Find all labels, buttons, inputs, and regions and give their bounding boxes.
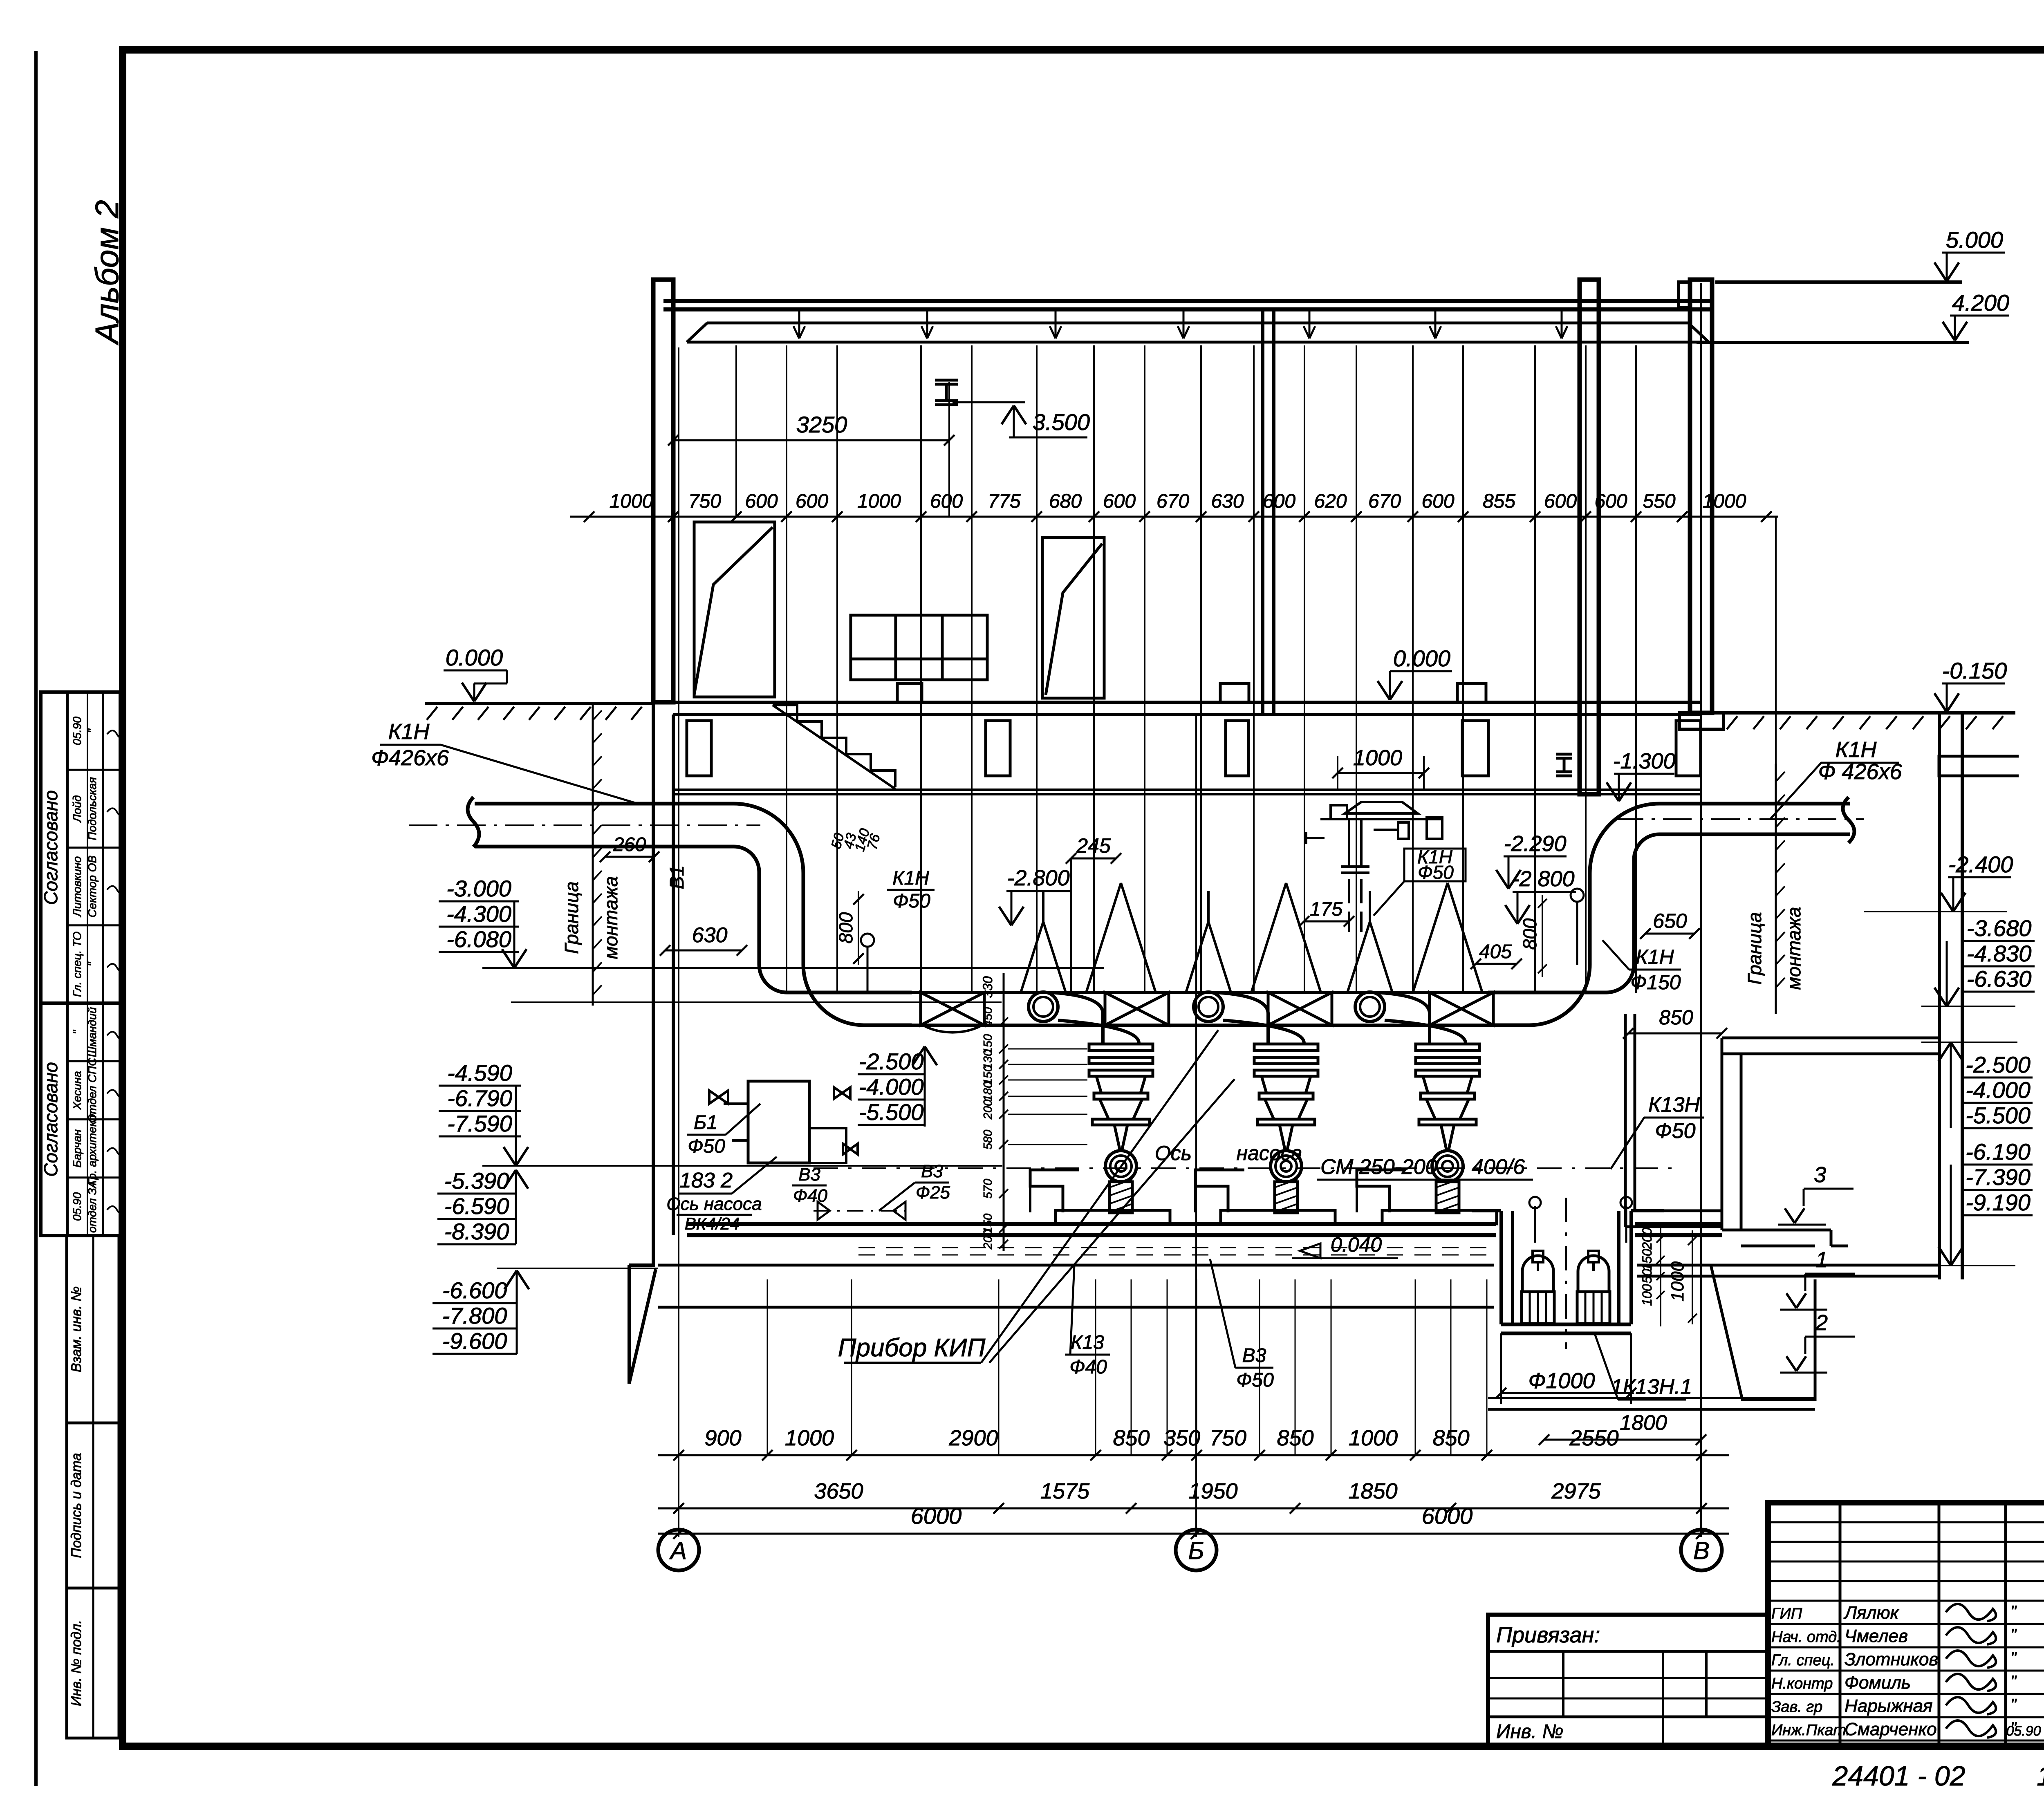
column axis Б <box>1176 1530 1217 1570</box>
witness line x=3462 <box>1415 1279 1416 1455</box>
pipe centreline right <box>1615 818 1864 820</box>
svg-text:Сектор ОВ: Сектор ОВ <box>86 856 99 918</box>
svg-text:К13Н: К13Н <box>1648 1093 1700 1117</box>
label К1Н ф50 boxed <box>1404 849 1466 881</box>
pipe К13Н riser <box>1625 1014 1722 1227</box>
svg-text:-6.080: -6.080 <box>446 926 511 952</box>
svg-text:405: 405 <box>1479 941 1512 963</box>
floor beam soffit band <box>673 790 1701 794</box>
svg-text:2900: 2900 <box>948 1426 998 1450</box>
outer trim line left <box>34 51 38 1786</box>
svg-text:600: 600 <box>1263 491 1295 512</box>
svg-text:620: 620 <box>1314 491 1347 512</box>
monorail I-beam (hall) <box>935 380 958 405</box>
svg-text:Ф 426х6: Ф 426х6 <box>1818 759 1902 784</box>
svg-text:": " <box>2010 1626 2017 1644</box>
svg-text:": " <box>86 728 99 733</box>
dimension 630 <box>665 950 742 952</box>
svg-text:Ф50: Ф50 <box>1655 1119 1695 1143</box>
witness line x=2927 <box>1196 1279 1197 1455</box>
pipe К1Н left elbow down <box>734 804 803 965</box>
svg-text:-6.630: -6.630 <box>1967 966 2032 992</box>
air valve riser right <box>1571 889 1584 902</box>
svg-text:Альбом 2: Альбом 2 <box>89 200 125 345</box>
svg-text:Ф25: Ф25 <box>916 1183 950 1203</box>
svg-text:0.000: 0.000 <box>1393 645 1450 671</box>
svg-text:Литовкино: Литовкино <box>71 856 83 918</box>
svg-text:1000: 1000 <box>610 491 653 512</box>
svg-text:1000: 1000 <box>1349 1426 1398 1450</box>
svg-text:600: 600 <box>1421 491 1454 512</box>
svg-text:0.040: 0.040 <box>1331 1233 1382 1256</box>
svg-text:-9.600: -9.600 <box>442 1328 507 1354</box>
svg-text:-5.500: -5.500 <box>1966 1102 2031 1128</box>
svg-text:6000: 6000 <box>1422 1503 1473 1529</box>
svg-text:670: 670 <box>1368 491 1401 512</box>
svg-text:05.90: 05.90 <box>2006 1723 2041 1739</box>
svg-text:Ф50: Ф50 <box>893 890 930 912</box>
margin cell 'Взам. инв. №' <box>67 1236 119 1423</box>
svg-text:К1Н: К1Н <box>388 719 430 744</box>
valves Б1 <box>709 1087 858 1154</box>
left pit wall <box>629 702 673 1384</box>
svg-text:-7.390: -7.390 <box>1966 1164 2031 1190</box>
registration block (Привязан) <box>1488 1615 1768 1746</box>
svg-text:400/6: 400/6 <box>1472 1155 1525 1179</box>
column axis А <box>658 1530 699 1570</box>
svg-text:": " <box>2010 1649 2017 1667</box>
svg-text:Нач. отд.: Нач. отд. <box>1771 1629 1841 1646</box>
svg-text:Ф50: Ф50 <box>1236 1369 1274 1391</box>
svg-text:1К13Н.1: 1К13Н.1 <box>1611 1375 1692 1399</box>
svg-text:1: 1 <box>1815 1248 1828 1272</box>
svg-text:183 2: 183 2 <box>679 1169 733 1192</box>
svg-text:Согласовано: Согласовано <box>40 1062 61 1177</box>
svg-text:Ф1000: Ф1000 <box>1528 1369 1595 1393</box>
svg-text:Ф50: Ф50 <box>688 1136 725 1157</box>
svg-text:Лялюк: Лялюк <box>1843 1603 1900 1623</box>
dimension row 2 <box>658 1508 1729 1510</box>
svg-text:К1Н: К1Н <box>1836 737 1877 762</box>
right pit step <box>1722 1230 1848 1246</box>
svg-text:3: 3 <box>1814 1163 1826 1187</box>
svg-text:насоса: насоса <box>1237 1142 1302 1165</box>
dimension 3250 <box>673 439 949 441</box>
svg-text:-7.590: -7.590 <box>447 1111 512 1136</box>
svg-text:монтажа: монтажа <box>1783 907 1804 990</box>
svg-text:180: 180 <box>982 1082 995 1101</box>
svg-text:-6.790: -6.790 <box>447 1085 512 1111</box>
ribbed roof panel band <box>687 323 1709 342</box>
svg-text:-2 800: -2 800 <box>1512 867 1574 891</box>
svg-text:200: 200 <box>1640 1228 1654 1250</box>
svg-text:200: 200 <box>982 1230 995 1250</box>
witness line x=2680 <box>1095 1279 1096 1455</box>
svg-text:600: 600 <box>796 491 828 512</box>
witness line x=3549 <box>1450 1279 1452 1455</box>
svg-text:Шмандий: Шмандий <box>86 1007 99 1057</box>
suction manifold <box>912 992 1488 1025</box>
installation boundary left (Граница монтажа) <box>592 702 594 1006</box>
svg-text:6000: 6000 <box>911 1503 962 1529</box>
monorail I-beam (basement) <box>1556 754 1572 776</box>
margin cell 'Инв. № подл.' <box>67 1588 119 1738</box>
dimension witness lines <box>735 345 737 517</box>
svg-text:Нарыжная: Нарыжная <box>1845 1696 1933 1716</box>
dimension 1000 (КИП) <box>1338 772 1424 774</box>
installation boundary right (Граница монтажа) <box>1775 764 1777 1014</box>
svg-text:": " <box>2010 1603 2017 1621</box>
svg-text:Взам. инв. №: Взам. инв. № <box>69 1286 84 1372</box>
drain channel dashed <box>858 1248 1488 1255</box>
slab pedestal 2 <box>1220 683 1249 702</box>
sump pit bottom <box>1501 1324 1631 1333</box>
svg-text:Граница: Граница <box>561 881 582 954</box>
svg-text:": " <box>2010 1696 2017 1714</box>
svg-text:750: 750 <box>1210 1426 1246 1450</box>
svg-text:Фомиль: Фомиль <box>1845 1673 1911 1693</box>
svg-text:Инж.Пкат.: Инж.Пкат. <box>1771 1722 1850 1739</box>
svg-text:1575: 1575 <box>1040 1479 1090 1503</box>
roof panel joint ticks <box>793 309 805 338</box>
svg-text:800: 800 <box>835 912 856 943</box>
svg-text:3.500: 3.500 <box>1033 409 1090 435</box>
svg-text:Злотников: Злотников <box>1845 1649 1938 1669</box>
step rect right ground <box>1939 756 2019 776</box>
roof beam (top slab) <box>663 301 1711 309</box>
svg-text:Зав. гр: Зав. гр <box>1771 1698 1822 1716</box>
svg-text:Гл. спец. ТО: Гл. спец. ТО <box>71 932 83 997</box>
svg-text:100: 100 <box>1640 1284 1654 1306</box>
svg-text:330: 330 <box>980 976 995 998</box>
svg-text:3250: 3250 <box>796 412 847 437</box>
svg-text:К1Н: К1Н <box>1636 945 1674 968</box>
svg-text:Н.контр: Н.контр <box>1771 1675 1833 1692</box>
svg-text:ГИП: ГИП <box>1771 1605 1802 1622</box>
svg-text:850: 850 <box>1659 1006 1693 1029</box>
svg-text:600: 600 <box>1103 491 1136 512</box>
svg-text:50: 50 <box>1640 1269 1654 1284</box>
manifold valve 2 <box>1105 992 1169 1025</box>
svg-text:-6.190: -6.190 <box>1966 1139 2031 1165</box>
witness line x=3168 <box>1295 1279 1296 1455</box>
svg-text:670: 670 <box>1156 491 1189 512</box>
svg-text:1000: 1000 <box>857 491 901 512</box>
roof line +4.200 over annex <box>1697 341 1969 344</box>
svg-text:К13: К13 <box>1071 1332 1104 1353</box>
manifold valve 3 <box>1268 992 1332 1025</box>
witness line x=2767 <box>1131 1279 1132 1455</box>
pump unit 2 (СМ 250-200-400/6) <box>1186 883 1335 1224</box>
svg-text:4.200: 4.200 <box>1952 290 2009 316</box>
svg-text:1800: 1800 <box>1620 1411 1667 1435</box>
pipe К1Н left inlet <box>468 797 734 847</box>
svg-text:-2.500: -2.500 <box>1966 1052 2031 1077</box>
svg-text:76: 76 <box>864 832 883 851</box>
svg-text:Ф50: Ф50 <box>1418 862 1454 883</box>
svg-text:ВК4/24: ВК4/24 <box>685 1214 740 1233</box>
svg-text:В1: В1 <box>666 865 688 889</box>
witness line x=3081 <box>1259 1279 1260 1455</box>
left footing line <box>497 1268 658 1269</box>
dimension ф1000 <box>1501 1392 1631 1394</box>
pump unit 1 (СМ 250-200-400/6) <box>1021 883 1170 1224</box>
svg-text:600: 600 <box>1544 491 1577 512</box>
svg-text:Гр. архитект: Гр. архитект <box>86 1111 99 1185</box>
witness line x=2083 <box>851 1279 852 1455</box>
svg-text:150: 150 <box>1640 1249 1654 1271</box>
svg-text:630: 630 <box>1211 491 1244 512</box>
svg-text:900: 900 <box>704 1426 741 1450</box>
top dimension chain <box>570 516 1778 518</box>
svg-text:": " <box>86 962 99 966</box>
svg-text:Ось: Ось <box>1155 1142 1192 1165</box>
svg-text:350: 350 <box>1163 1426 1200 1450</box>
svg-text:В3: В3 <box>1242 1345 1266 1366</box>
svg-text:-3.000: -3.000 <box>446 876 511 901</box>
pipe right lower elbow <box>1488 965 1634 1025</box>
svg-text:750: 750 <box>688 491 721 512</box>
ground floor slab (0.000) <box>673 702 1701 715</box>
svg-text:1000: 1000 <box>1703 491 1746 512</box>
svg-text:К1Н: К1Н <box>892 867 929 889</box>
ground line right with hatching <box>1725 711 2015 715</box>
svg-text:Инв. № подл.: Инв. № подл. <box>69 1620 84 1706</box>
column axis В <box>1681 1530 1722 1570</box>
svg-text:СМ 250-200-: СМ 250-200- <box>1320 1155 1444 1179</box>
svg-text:Ф426х6: Ф426х6 <box>371 746 449 770</box>
svg-text:Ф150: Ф150 <box>1630 971 1681 994</box>
svg-text:2: 2 <box>1815 1310 1828 1335</box>
svg-text:0.000: 0.000 <box>446 645 503 670</box>
manifold valve 1 <box>921 992 984 1025</box>
dimension 1800 <box>1544 1439 1701 1441</box>
right pit slope <box>1711 1265 1815 1400</box>
wall panel with open leaf 2 <box>1042 538 1104 698</box>
svg-text:245: 245 <box>1076 834 1111 857</box>
svg-text:Хесина: Хесина <box>71 1071 83 1110</box>
svg-text:Подпись и дата: Подпись и дата <box>69 1453 84 1558</box>
svg-text:800: 800 <box>1519 918 1540 950</box>
svg-text:Б1: Б1 <box>694 1112 717 1133</box>
svg-text:Подольская: Подольская <box>86 777 99 840</box>
witness line x=2855 <box>1167 1279 1168 1455</box>
svg-text:Гл. спец.: Гл. спец. <box>1771 1652 1835 1669</box>
svg-text:-4.300: -4.300 <box>446 901 511 927</box>
svg-text:24401 - 02: 24401 - 02 <box>1832 1761 1965 1792</box>
manifold valve 4 <box>1430 992 1493 1025</box>
svg-text:А: А <box>669 1537 687 1564</box>
svg-text:В3: В3 <box>921 1161 943 1181</box>
stairs to basement <box>773 705 895 789</box>
float switch rod 1 <box>1534 1206 1536 1243</box>
hanging beam 2 <box>986 721 1010 776</box>
svg-text:2975: 2975 <box>1551 1479 1601 1503</box>
pipe left lower elbow <box>759 965 912 1025</box>
hanging beam 3 <box>1226 721 1248 776</box>
wall panel with open leaf 1 <box>694 522 775 697</box>
svg-text:Лойд: Лойд <box>71 795 83 823</box>
right wall of hall <box>1580 280 1599 794</box>
svg-text:Согласовано: Согласовано <box>40 790 61 905</box>
control cabinet block <box>851 615 987 680</box>
svg-text:1850: 1850 <box>1348 1479 1397 1503</box>
svg-text:600: 600 <box>745 491 778 512</box>
pipe К1Н right elbow down <box>1590 804 1659 965</box>
svg-text:-6.600: -6.600 <box>442 1277 507 1303</box>
svg-text:-4.000: -4.000 <box>1966 1077 2031 1103</box>
sump centreline <box>1565 1198 1567 1349</box>
svg-text:-6.590: -6.590 <box>444 1193 509 1219</box>
svg-text:Прибор КИП: Прибор КИП <box>838 1334 986 1362</box>
margin cell 'Подпись и дата' <box>67 1423 119 1588</box>
sump foundation lines <box>1488 1398 1815 1409</box>
axis line Б <box>1195 715 1197 1537</box>
witness to boundary right <box>1775 517 1777 764</box>
vertical dimension chain (pump) <box>1003 973 1005 1251</box>
svg-text:-3.680: -3.680 <box>1967 915 2032 941</box>
svg-text:1950: 1950 <box>1188 1479 1237 1503</box>
svg-text:450: 450 <box>982 1007 995 1027</box>
sump pit walls <box>1472 1211 1664 1324</box>
svg-text:-2.800: -2.800 <box>1007 866 1069 890</box>
svg-text:Чмелев: Чмелев <box>1845 1626 1908 1646</box>
right wall axis В <box>1690 280 1712 713</box>
svg-text:Привязан:: Привязан: <box>1496 1623 1600 1647</box>
svg-text:650: 650 <box>1653 909 1687 932</box>
pump unit 3 (СМ 250-200-400/6) <box>1347 883 1497 1224</box>
svg-text:Смарченко: Смарченко <box>1845 1719 1937 1739</box>
svg-text:Ф40: Ф40 <box>1069 1356 1107 1378</box>
water level line <box>511 1001 1002 1003</box>
svg-text:В3: В3 <box>798 1165 820 1185</box>
float switch rod 2 <box>1625 1206 1627 1243</box>
hanging beam 4 <box>1462 721 1488 776</box>
svg-text:": " <box>2010 1673 2017 1691</box>
svg-text:-8.390: -8.390 <box>444 1219 509 1244</box>
svg-text:3650: 3650 <box>814 1479 863 1503</box>
svg-text:10: 10 <box>2037 1761 2044 1792</box>
КИП instrument assembly <box>1306 802 1443 932</box>
svg-text:260: 260 <box>613 834 646 856</box>
svg-text:-5.500: -5.500 <box>859 1099 924 1125</box>
svg-text:Инв. №: Инв. № <box>1496 1721 1563 1743</box>
pump axis centreline <box>814 1167 1676 1169</box>
left wall column (axis А parapet) <box>653 280 673 702</box>
svg-text:Ось насоса: Ось насоса <box>666 1194 762 1214</box>
svg-text:855: 855 <box>1483 491 1515 512</box>
drainage pump ГНОМ 2 <box>1577 1251 1610 1324</box>
witness line x=3637 <box>1486 1279 1488 1455</box>
axis line А <box>678 347 679 1537</box>
dimension row 3 (6000+6000) <box>658 1533 1729 1535</box>
drain pump ВК4/24 axis <box>814 1210 905 1212</box>
svg-text:-7.800: -7.800 <box>442 1303 507 1328</box>
svg-text:775: 775 <box>988 491 1020 512</box>
svg-text:1000: 1000 <box>1667 1261 1688 1301</box>
middle wall <box>1263 309 1274 715</box>
ground line left with hatching <box>425 702 654 705</box>
svg-text:200: 200 <box>982 1100 995 1120</box>
svg-text:1000: 1000 <box>1353 746 1402 770</box>
svg-text:Граница: Граница <box>1744 912 1765 984</box>
svg-text:Барчан: Барчан <box>71 1129 83 1168</box>
svg-text:-1.300: -1.300 <box>1613 749 1675 773</box>
svg-text:Ф40: Ф40 <box>793 1186 827 1206</box>
svg-text:-4.590: -4.590 <box>447 1060 512 1086</box>
drainage pump ГНОМ 1 <box>1522 1251 1554 1324</box>
approval stamp 1 (Согласовано) <box>40 692 125 1003</box>
title block <box>1768 1503 2044 1747</box>
dimension 1000 rot (sump) <box>1692 1230 1693 1324</box>
right basement wall <box>1939 713 1962 1279</box>
roof line +5.000 over annex <box>1715 280 1962 284</box>
foundation slab <box>658 1265 1938 1307</box>
air valve riser left <box>861 934 874 947</box>
svg-text:Б: Б <box>1188 1537 1204 1564</box>
slab pedestal 3 <box>1457 683 1486 702</box>
unit 183 2 (Б1 pump) <box>748 1081 809 1163</box>
dimension row 1 <box>658 1454 1729 1456</box>
witness line x=2443 <box>998 1279 1000 1455</box>
svg-text:-0.150: -0.150 <box>1942 658 2007 683</box>
svg-text:680: 680 <box>1049 491 1082 512</box>
svg-text:монтажа: монтажа <box>600 876 621 959</box>
svg-text:05.90: 05.90 <box>71 1192 83 1221</box>
svg-text:580: 580 <box>982 1130 995 1149</box>
svg-text:175: 175 <box>1310 898 1342 920</box>
svg-text:-4.830: -4.830 <box>1967 941 2032 966</box>
hanging beam 1 <box>687 721 711 776</box>
hanging beam 5 <box>1676 721 1701 776</box>
witness line x=3256 <box>1331 1279 1332 1455</box>
axis line В <box>1700 283 1702 1537</box>
svg-text:05.90: 05.90 <box>71 717 83 745</box>
witness line x=1877 <box>767 1279 768 1455</box>
slab pedestal 1 <box>897 683 922 702</box>
svg-text:": " <box>71 1030 83 1034</box>
svg-text:-2.400: -2.400 <box>1948 851 2013 877</box>
right pit ledge <box>1722 1038 1939 1230</box>
svg-text:-2.290: -2.290 <box>1504 831 1566 856</box>
svg-text:-4.000: -4.000 <box>859 1074 924 1100</box>
svg-text:600: 600 <box>930 491 963 512</box>
pipe К1Н right outlet <box>1659 797 1854 843</box>
svg-text:В: В <box>1693 1537 1710 1564</box>
svg-text:550: 550 <box>1643 491 1675 512</box>
svg-text:570: 570 <box>982 1179 995 1198</box>
svg-text:2550: 2550 <box>1569 1426 1618 1450</box>
svg-text:600: 600 <box>1594 491 1627 512</box>
svg-text:5.000: 5.000 <box>1946 227 2003 253</box>
svg-text:-9.190: -9.190 <box>1966 1189 2031 1215</box>
svg-text:1000: 1000 <box>785 1426 834 1450</box>
sump level mini chain <box>1660 1226 1661 1326</box>
svg-text:-5.390: -5.390 <box>444 1168 509 1194</box>
pipe centreline left <box>409 824 760 826</box>
approval stamp 2 (Согласовано) <box>40 1003 125 1236</box>
svg-text:отдел ЗА: отдел ЗА <box>86 1181 99 1233</box>
svg-text:630: 630 <box>692 923 728 947</box>
machine hall floor <box>687 1224 1722 1235</box>
